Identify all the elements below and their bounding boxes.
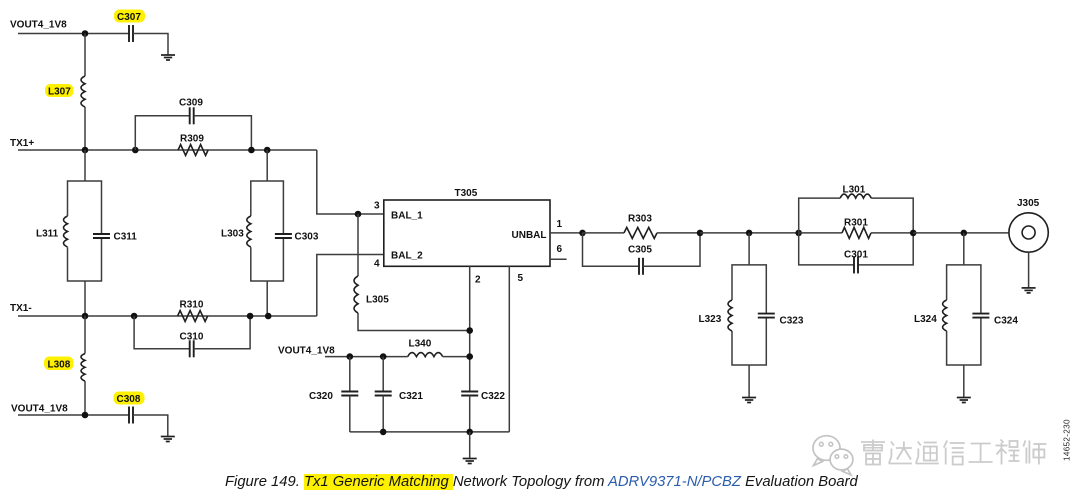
wire C321 lower lead (382, 396, 384, 432)
inductor L307 (81, 76, 85, 107)
junction node TX1+ / C309 left (132, 147, 139, 154)
svg-text:3: 3 (374, 201, 380, 212)
junction node TX1+ / L311 feed (82, 147, 89, 154)
junction node C321 bottom (380, 429, 387, 436)
junction node L303 feed (264, 147, 271, 154)
svg-text:2: 2 (475, 275, 481, 286)
capacitor C305 (639, 258, 643, 275)
connector J305 center pin (1022, 226, 1035, 239)
svg-text:TX1-: TX1- (10, 303, 32, 314)
wire L323 tank feed (748, 233, 750, 265)
wire pin 2 drop (469, 266, 471, 391)
wire C310 branch (134, 316, 190, 349)
ground G4 (L323) (742, 398, 756, 403)
svg-text:14652-230: 14652-230 (1063, 419, 1072, 461)
svg-text:T305: T305 (455, 188, 478, 199)
watermark wechat icon big bubble eyes (819, 442, 832, 446)
junction node R303 right (697, 230, 704, 237)
svg-text:L307: L307 (48, 87, 71, 98)
wire L308 upper lead (84, 316, 86, 354)
connector J305 outer ring (1009, 213, 1048, 252)
svg-text:R309: R309 (180, 134, 204, 145)
capacitor C311 (93, 234, 110, 238)
junction node TX1- / L311 (82, 313, 89, 320)
wire ground stub mid (469, 432, 471, 459)
svg-text:UNBAL: UNBAL (512, 230, 547, 241)
svg-text:C321: C321 (399, 391, 423, 402)
resistor R310 (178, 311, 208, 322)
svg-text:C324: C324 (994, 316, 1018, 327)
wire C305 branch right (643, 233, 700, 266)
wire C320 upper lead (349, 357, 351, 392)
svg-text:C323: C323 (780, 316, 804, 327)
junction node L305 / pin2 (466, 327, 473, 334)
inductor L303 (247, 216, 251, 247)
inductor L301 (840, 194, 871, 198)
highlighted label C307 (114, 10, 145, 24)
svg-text:L324: L324 (914, 314, 937, 325)
wire main to L324 node (913, 232, 1009, 234)
wire VOUT4_1V8 rail to C307 node (18, 33, 129, 35)
parallel tank L311/C311 frame (68, 181, 102, 281)
capacitor C324 (972, 314, 989, 318)
wire L311 tank feed top (84, 150, 86, 181)
wire L340 to pin2 node (443, 356, 470, 358)
svg-text:C301: C301 (844, 250, 868, 261)
parallel tank L323/C323 frame (732, 265, 766, 365)
wire L324 tank feed (963, 233, 965, 265)
junction node BAL_1 / L305 tap (355, 211, 362, 218)
svg-text:C305: C305 (628, 245, 652, 256)
L301/R301/C301 parallel frame (799, 198, 914, 265)
wire TX1- main (18, 315, 317, 317)
junction node C320 top (347, 353, 354, 360)
wire L323 tank ground lead (748, 365, 750, 398)
wire L311 tank to TX1- (84, 281, 86, 316)
ground G3 (mid rail) (463, 459, 477, 464)
watermark glyph 师 (1023, 441, 1046, 465)
junction node VOUT4 bottom (82, 412, 89, 419)
watermark glyph 达 (889, 442, 912, 464)
svg-text:4: 4 (374, 259, 380, 270)
wire C309 branch right (194, 116, 252, 150)
resistor R301 (842, 227, 871, 238)
parallel tank L303/C303 frame (251, 181, 284, 281)
inductor L323 (728, 300, 732, 331)
wire L305 upper lead (357, 214, 359, 276)
watermark glyph 通 (916, 442, 939, 464)
wire R301 right lead (871, 232, 913, 234)
svg-text:C308: C308 (117, 394, 141, 405)
wire TX1+ main (18, 149, 317, 151)
wire C321 upper lead (382, 357, 384, 392)
svg-text:R301: R301 (844, 218, 868, 229)
parallel tank L324/C324 frame (947, 265, 981, 365)
junction node TX1- / C310 left (131, 313, 138, 320)
resistor R309 (178, 145, 208, 156)
svg-text:C307: C307 (117, 12, 141, 23)
wire L307 upper lead (84, 34, 86, 77)
wire C322 lower lead (469, 396, 471, 432)
svg-text:C310: C310 (180, 332, 204, 343)
junction node C322 bottom / ground (466, 429, 473, 436)
highlighted label L308 (44, 357, 74, 371)
inductor L305 (354, 276, 358, 313)
wire C305 branch (583, 233, 640, 266)
svg-text:R310: R310 (180, 300, 204, 311)
wire R303 left lead (583, 232, 625, 234)
watermark glyph 雷 (861, 440, 885, 465)
svg-text:VOUT4_1V8: VOUT4_1V8 (278, 346, 335, 357)
svg-text:C311: C311 (114, 232, 138, 243)
wire pin 5 drop (508, 266, 510, 432)
capacitor C322 (461, 392, 478, 396)
wire C309 branch (135, 116, 189, 150)
wire C308 to ground (133, 415, 168, 437)
svg-text:C322: C322 (481, 391, 505, 402)
svg-text:L323: L323 (699, 314, 722, 325)
inductor L311 (64, 216, 68, 247)
inductor L324 (943, 300, 947, 331)
svg-text:L340: L340 (409, 339, 432, 350)
wire TX1+ to BAL_1 (317, 150, 384, 214)
junction node C310 right (247, 313, 254, 320)
wire VOUT4 mid rail (325, 356, 408, 358)
junction node block left (795, 230, 802, 237)
wire R303 right lead (657, 232, 700, 234)
junction node VOUT4 top / L307 (82, 30, 89, 37)
ground G1 (C307) (161, 55, 175, 60)
wire bottom rail (350, 431, 510, 433)
watermark glyph 信 (944, 441, 965, 465)
svg-text:5: 5 (518, 273, 524, 284)
wire C307 to ground (133, 34, 168, 56)
wire R301 left lead (799, 232, 842, 234)
capacitor C321 (375, 392, 392, 396)
wire C320 lower lead (349, 396, 351, 432)
wire main to L323 node (700, 232, 799, 234)
junction node L303 bottom feed (265, 313, 272, 320)
capacitor C323 (758, 314, 775, 318)
capacitor C301 (854, 256, 858, 273)
wire L303 tank feed top (266, 150, 268, 181)
junction node L323 feed (746, 230, 753, 237)
svg-text:BAL_2: BAL_2 (391, 251, 423, 262)
wire pin 6 stub (550, 258, 567, 260)
watermark glyph 工 (969, 444, 993, 463)
capacitor C303 (275, 234, 292, 238)
inductor L340 (408, 353, 443, 357)
capacitor C320 (341, 392, 358, 396)
svg-text:L305: L305 (366, 295, 389, 306)
resistor R303 (624, 227, 657, 238)
svg-text:L308: L308 (48, 360, 71, 371)
junction node C309 right (248, 147, 255, 154)
junction node block right (910, 230, 917, 237)
wire VOUT4_1V8 bottom rail (18, 414, 129, 416)
wire L305 to pin2 node (358, 313, 470, 331)
highlighted label L307 (45, 84, 74, 98)
svg-text:R303: R303 (628, 214, 652, 225)
svg-text:C309: C309 (179, 98, 203, 109)
junction node pin1 / R303 left (579, 230, 586, 237)
wire C310 branch right (194, 316, 250, 349)
junction node L340 / pin2 (466, 353, 473, 360)
junction node L324 feed (961, 230, 968, 237)
wire TX1- to BAL_2 (317, 255, 384, 317)
ground G6 (J305) (1022, 288, 1036, 293)
svg-text:1: 1 (557, 219, 563, 230)
watermark wechat icon small bubble (830, 449, 853, 475)
ground G2 (C308) (161, 437, 175, 442)
svg-text:C320: C320 (309, 391, 333, 402)
ground G5 (L324) (957, 398, 971, 403)
svg-text:J305: J305 (1017, 198, 1040, 209)
svg-text:VOUT4_1V8: VOUT4_1V8 (11, 404, 68, 415)
capacitor C308 (129, 407, 133, 424)
svg-text:L303: L303 (221, 229, 244, 240)
wire L303 tank to TX1- (266, 281, 268, 316)
capacitor C310 (190, 340, 194, 357)
svg-text:C303: C303 (295, 232, 319, 243)
watermark wechat icon big bubble (813, 436, 840, 466)
wire J305 shield drop (1028, 252, 1030, 288)
svg-text:L311: L311 (36, 229, 59, 240)
highlighted label C308 (114, 392, 145, 406)
watermark glyph 程 (996, 440, 1020, 465)
capacitor C309 (190, 107, 194, 124)
svg-text:VOUT4_1V8: VOUT4_1V8 (10, 20, 67, 31)
capacitor C307 (129, 25, 133, 42)
svg-text:6: 6 (557, 244, 563, 255)
junction node C321 top (380, 353, 387, 360)
wire L307 lower lead (84, 107, 86, 150)
svg-text:L301: L301 (843, 185, 866, 196)
svg-text:BAL_1: BAL_1 (391, 211, 423, 222)
transformer T305 body (384, 200, 550, 266)
watermark wechat icon small bubble eyes (835, 455, 848, 459)
inductor L308 (81, 354, 85, 382)
wire L308 lower lead (84, 381, 86, 415)
wire pin 1 UNBAL out (550, 232, 583, 234)
svg-text:TX1+: TX1+ (10, 138, 34, 149)
caption Figure 149 (225, 474, 858, 490)
wire L324 tank ground lead (963, 365, 965, 398)
